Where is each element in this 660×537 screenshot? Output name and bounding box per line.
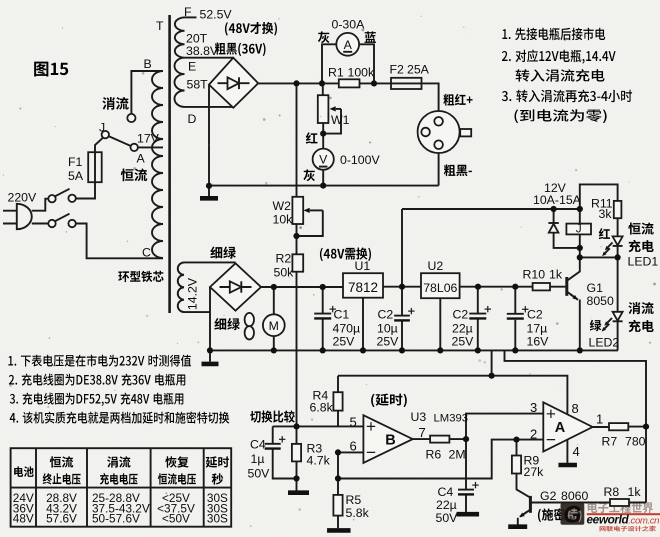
svg-text:C4: C4 (250, 438, 266, 452)
svg-text:C2: C2 (453, 308, 469, 322)
svg-text:1µ: 1µ (251, 452, 265, 466)
svg-text:1k: 1k (549, 268, 563, 282)
svg-text:G2: G2 (540, 489, 557, 503)
svg-text:U1: U1 (355, 259, 371, 273)
svg-text:10A-15A: 10A-15A (533, 193, 582, 207)
svg-text:R10: R10 (523, 268, 546, 282)
svg-text:1k: 1k (628, 485, 642, 499)
svg-text:J: J (99, 121, 105, 135)
svg-text:6.8k: 6.8k (310, 401, 334, 415)
svg-text:LED1: LED1 (628, 255, 659, 269)
svg-text:A: A (344, 38, 353, 52)
svg-text:V: V (319, 153, 328, 167)
svg-text:17V: 17V (137, 132, 160, 146)
svg-text:3k: 3k (599, 207, 613, 221)
svg-text:52.5V: 52.5V (200, 8, 233, 22)
svg-text:7812: 7812 (348, 280, 378, 295)
svg-text:R5: R5 (346, 493, 362, 507)
svg-text:5.8k: 5.8k (346, 506, 370, 520)
svg-text:57.6V: 57.6V (46, 511, 77, 525)
svg-text:R1: R1 (328, 66, 344, 80)
svg-text:0-30A: 0-30A (332, 18, 366, 32)
svg-text:8050: 8050 (587, 294, 615, 308)
svg-text:50-57.6V: 50-57.6V (92, 511, 140, 525)
svg-text:C1: C1 (334, 308, 350, 322)
svg-text:G1: G1 (587, 281, 604, 295)
svg-text:220V: 220V (8, 191, 38, 205)
svg-text:2M: 2M (449, 448, 466, 462)
svg-text:J: J (576, 222, 582, 236)
svg-text:25V: 25V (333, 334, 356, 348)
svg-text:T: T (156, 19, 164, 33)
svg-text:50k: 50k (274, 266, 295, 280)
svg-text:<50V: <50V (162, 511, 190, 525)
svg-text:W2: W2 (273, 199, 292, 213)
svg-text:2: 2 (530, 427, 537, 442)
svg-text:25V: 25V (377, 334, 400, 348)
svg-text:3: 3 (530, 400, 537, 415)
svg-text:G: G (563, 502, 582, 529)
svg-text:50V: 50V (436, 511, 459, 525)
svg-text:6: 6 (350, 439, 357, 454)
svg-text:100k: 100k (348, 66, 376, 80)
svg-text:F2: F2 (390, 63, 405, 77)
svg-text:U3: U3 (411, 410, 427, 424)
svg-text:4.7k: 4.7k (307, 454, 331, 468)
svg-text:U2: U2 (428, 259, 444, 273)
svg-text:38.8V: 38.8V (186, 44, 219, 58)
svg-text:22µ: 22µ (436, 498, 457, 512)
svg-text:7: 7 (419, 425, 426, 440)
svg-text:780: 780 (625, 435, 646, 449)
svg-text:LM393: LM393 (434, 412, 469, 424)
svg-text:R2: R2 (276, 252, 292, 266)
svg-text:10k: 10k (273, 213, 294, 227)
svg-text:0-100V: 0-100V (340, 153, 380, 167)
svg-text:48V: 48V (13, 511, 34, 525)
svg-text:25V: 25V (452, 334, 475, 348)
svg-text:LED2: LED2 (589, 336, 620, 350)
svg-text:A: A (555, 420, 566, 436)
svg-text:M: M (269, 319, 279, 333)
svg-text:R6: R6 (426, 448, 442, 462)
svg-text:C2: C2 (378, 308, 394, 322)
svg-text:F: F (184, 5, 192, 19)
svg-text:E: E (188, 60, 196, 74)
svg-text:A: A (137, 152, 146, 166)
svg-text:5A: 5A (68, 169, 84, 183)
svg-text:eeworld.com.cn: eeworld.com.cn (587, 512, 660, 526)
svg-text:4: 4 (573, 444, 580, 459)
svg-text:78L06: 78L06 (423, 281, 457, 295)
svg-text:D: D (188, 112, 197, 126)
svg-text:R8: R8 (604, 485, 620, 499)
svg-text:25A: 25A (407, 63, 430, 77)
svg-text:B: B (144, 57, 152, 71)
svg-text:1: 1 (596, 412, 603, 427)
svg-text:C2: C2 (527, 308, 543, 322)
svg-text:B: B (385, 433, 395, 449)
svg-text:30S: 30S (207, 511, 228, 525)
svg-text:16V: 16V (527, 334, 550, 348)
svg-text:14.2V: 14.2V (186, 277, 200, 310)
svg-text:27k: 27k (524, 465, 545, 479)
svg-text:8: 8 (572, 401, 579, 416)
svg-text:C4: C4 (438, 485, 454, 499)
svg-text:5: 5 (350, 415, 357, 430)
svg-text:R7: R7 (602, 435, 618, 449)
svg-text:50V: 50V (248, 467, 271, 481)
svg-text:C: C (142, 246, 151, 260)
svg-text:F1: F1 (68, 155, 83, 169)
svg-text:W1: W1 (331, 113, 350, 127)
svg-text:58T: 58T (187, 78, 209, 92)
